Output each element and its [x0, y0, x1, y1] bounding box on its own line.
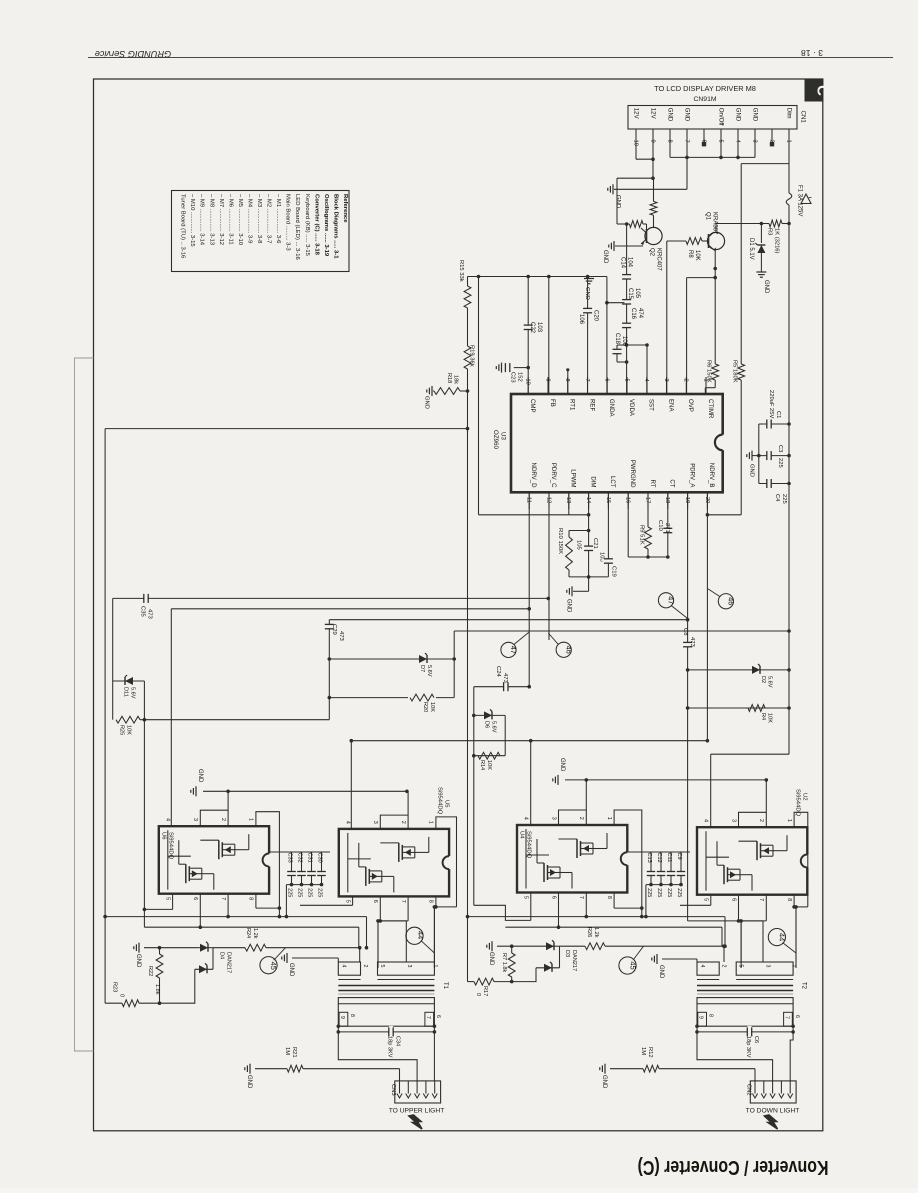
wire pin13/pin14 link: [479, 513, 591, 517]
wire U2 pins2-3 loop: [739, 780, 767, 827]
capacitor C18: [611, 343, 649, 394]
svg-text:473: 473: [147, 609, 153, 620]
test pad pin2: [770, 136, 774, 147]
capacitor C20: [582, 277, 594, 395]
wire T1 pin5 feed: [376, 919, 380, 962]
svg-text:Oscillograms ...... 3-19: Oscillograms ...... 3-19: [323, 194, 329, 257]
svg-text:2: 2: [578, 817, 584, 820]
svg-text:7: 7: [220, 897, 226, 900]
wire c35 left drop: [112, 598, 114, 719]
svg-text:225: 225: [666, 888, 672, 897]
svg-text:5.6V: 5.6V: [426, 665, 432, 677]
wire U4 pins2-3 loop: [559, 780, 587, 825]
svg-text:D6: D6: [484, 721, 490, 728]
svg-text:152: 152: [517, 372, 523, 382]
bus y754 DIM drive: [711, 753, 789, 755]
capacitor C10 271: [662, 492, 674, 559]
label C4 225: [774, 494, 787, 504]
label R8 10K: [687, 250, 700, 261]
svg-text:OVP: OVP: [687, 399, 694, 412]
capacitor C15: [605, 300, 632, 323]
svg-text:C12: C12: [656, 853, 662, 863]
net circle 44 right: [768, 929, 796, 954]
svg-text:R5 180K: R5 180K: [732, 360, 738, 383]
svg-text:9: 9: [544, 379, 550, 382]
rail y927 right: [505, 925, 722, 929]
wire Dim pin1 upper: [788, 136, 790, 194]
transformer T2: [695, 962, 806, 1034]
wire GND pin7 to GND: [614, 136, 687, 190]
wire pin16 PWRGND: [628, 492, 668, 557]
svg-text:10: 10: [525, 379, 531, 385]
resistor R26 1.2k: [585, 943, 724, 950]
label TO UPPER LIGHT: [389, 1108, 445, 1115]
label R21 1M: [284, 1047, 297, 1058]
svg-text:6: 6: [730, 898, 736, 901]
svg-text:4: 4: [699, 965, 705, 968]
svg-text:– M1 ............... 3-6: – M1 ............... 3-6: [275, 194, 281, 244]
svg-text:8: 8: [248, 897, 254, 900]
wire T1 pin3 stub: [378, 921, 406, 962]
svg-text:U5: U5: [444, 800, 450, 808]
svg-text:GND: GND: [584, 287, 590, 300]
svg-text:47: 47: [667, 596, 676, 604]
ground sym D1: [756, 272, 769, 294]
svg-text:GND: GND: [735, 108, 742, 122]
svg-text:1: 1: [786, 819, 792, 822]
svg-text:473: 473: [338, 631, 344, 642]
svg-text:104: 104: [627, 257, 633, 268]
title CN91M: [693, 96, 716, 103]
svg-text:– M2 ............... 3-7: – M2 ............... 3-7: [266, 194, 272, 243]
svg-text:7: 7: [584, 379, 590, 382]
wire 12V pin10: [636, 136, 655, 162]
svg-text:T1: T1: [442, 982, 448, 990]
svg-text:105: 105: [634, 288, 640, 299]
svg-text:2: 2: [721, 965, 727, 968]
label C23 152: [510, 372, 523, 383]
wire D2 rail: [686, 668, 791, 708]
wire FB pin9: [548, 277, 550, 395]
svg-text:1: 1: [606, 817, 612, 820]
diode D4 DAN217 upper: [197, 942, 245, 970]
ground sym bottom left: [134, 943, 141, 968]
svg-text:5: 5: [623, 379, 629, 382]
net circle 45 right: [619, 946, 644, 974]
svg-text:U4: U4: [519, 831, 525, 839]
ground sym R12: [600, 1064, 607, 1089]
svg-text:4: 4: [643, 379, 649, 382]
svg-text:3: 3: [192, 818, 198, 821]
svg-text:GND: GND: [684, 108, 691, 122]
diode D3 lower: [512, 962, 560, 982]
net circle 46 lower: [548, 633, 573, 657]
svg-text:11: 11: [526, 497, 532, 503]
svg-text:3: 3: [372, 821, 378, 824]
wire gate U2 pin4: [710, 754, 712, 827]
svg-text:C35: C35: [140, 606, 146, 618]
wire U4 pin1 out: [614, 810, 644, 918]
svg-text:7: 7: [784, 1016, 790, 1019]
svg-text:LPWM: LPWM: [570, 469, 577, 487]
wire T1 sec left out: [338, 1032, 417, 1081]
wire T2 sec left out: [697, 1032, 773, 1081]
svg-text:VDDA: VDDA: [628, 399, 635, 417]
resistor R22 1.8k: [156, 948, 163, 1005]
reference table: [172, 191, 350, 272]
ground sym T1 mid: [282, 953, 294, 977]
svg-text:REF: REF: [588, 399, 595, 411]
svg-text:GND: GND: [559, 758, 565, 772]
svg-text:R3: R3: [767, 228, 773, 235]
svg-text:225: 225: [297, 888, 303, 897]
svg-text:C15: C15: [627, 288, 633, 300]
svg-text:10K: 10K: [767, 713, 773, 723]
svg-text:5: 5: [379, 965, 385, 968]
svg-text:1.2k: 1.2k: [252, 928, 258, 939]
transistor Q2: [641, 227, 662, 245]
svg-text:– M7 .............. 3-12: – M7 .............. 3-12: [218, 194, 224, 245]
wire Q1 emitter: [713, 250, 717, 364]
svg-text:CN3: CN3: [390, 1084, 396, 1096]
svg-text:FB: FB: [549, 399, 556, 407]
wire br gnd: [497, 944, 546, 948]
IC U3 pin names: [529, 399, 715, 488]
svg-text:1K (3216): 1K (3216): [774, 228, 780, 254]
svg-text:– M5 .............. 3-10: – M5 .............. 3-10: [237, 194, 243, 246]
svg-text:U2: U2: [802, 793, 808, 801]
svg-text:D11: D11: [123, 687, 129, 697]
svg-text:R25: R25: [119, 725, 125, 735]
wire 12V pin9 rail: [617, 136, 655, 181]
resistor R9 51K: [645, 492, 652, 559]
svg-text:– M9 .............. 3-14: – M9 .............. 3-14: [199, 194, 205, 246]
resistor Q2 collector: [650, 178, 657, 227]
svg-text:C20: C20: [593, 310, 599, 322]
wire F1 down: [788, 205, 790, 754]
label F1 3A 125V: [797, 185, 803, 216]
svg-text:R14: R14: [479, 760, 485, 770]
bus y430 sense: [105, 427, 469, 431]
wire GND pin8: [670, 136, 755, 160]
svg-text:10K: 10K: [429, 702, 435, 712]
svg-text:R20: R20: [422, 702, 428, 712]
svg-text:6: 6: [550, 896, 556, 899]
label R9 51K: [639, 525, 645, 545]
svg-text:CT: CT: [669, 479, 676, 487]
label C10 271: [657, 520, 670, 533]
wire U6 pin7: [227, 894, 229, 917]
svg-text:TO DOWN LIGHT: TO DOWN LIGHT: [746, 1108, 800, 1115]
svg-text:473: 473: [502, 673, 508, 684]
label C15 105: [627, 288, 640, 300]
svg-text:R17: R17: [482, 986, 488, 996]
svg-text:1: 1: [428, 821, 434, 824]
svg-text:1.2k: 1.2k: [593, 927, 599, 938]
gnd rail right: [565, 778, 768, 782]
wire rail right corner: [723, 917, 727, 948]
diode D4 lower: [160, 963, 214, 1003]
label D1 5.1V: [748, 238, 754, 260]
svg-text:16: 16: [625, 497, 631, 503]
bus y620 PDRV-A2: [329, 619, 687, 621]
resistor R6: [705, 364, 718, 394]
bus y598 PDRV_C: [113, 597, 550, 601]
svg-text:103: 103: [536, 322, 542, 333]
section letter C box: [805, 79, 831, 101]
svg-text:1.8k: 1.8k: [154, 984, 160, 995]
svg-text:GND: GND: [288, 963, 294, 977]
capacitor C24 473: [474, 666, 531, 693]
wire OVP rail: [687, 278, 716, 394]
svg-text:ENA: ENA: [667, 399, 674, 412]
svg-text:1M: 1M: [640, 1047, 646, 1055]
wire pdrv_a down: [687, 708, 689, 921]
bus y609 NDRV_D: [171, 607, 531, 611]
wire sense left vertical: [103, 429, 107, 1004]
svg-text:C13: C13: [646, 853, 652, 863]
label R7 1.8k: [501, 953, 507, 972]
resistor R17 0: [468, 978, 512, 985]
svg-text:14: 14: [585, 497, 591, 503]
svg-text:R7 1.8k: R7 1.8k: [501, 953, 507, 972]
resistor R3: [769, 220, 791, 227]
label C22 103: [529, 322, 542, 334]
wire GND pin3: [754, 136, 756, 158]
svg-text:1: 1: [432, 965, 438, 968]
svg-text:D7: D7: [419, 665, 425, 672]
wire U4 pin5 source: [474, 893, 531, 921]
label R3 1K(3216): [767, 228, 780, 254]
capacitor C6 18p 3KV: [745, 1026, 759, 1058]
svg-text:8: 8: [606, 896, 612, 899]
svg-text:8: 8: [349, 1014, 355, 1017]
svg-text:0: 0: [475, 993, 481, 996]
svg-text:D2: D2: [760, 676, 766, 683]
svg-text:C3: C3: [777, 445, 783, 452]
wire U2 pin8 junction: [792, 895, 808, 968]
svg-text:– M6 .............. 3-11: – M6 .............. 3-11: [227, 194, 233, 245]
wire T2 pin1 feed: [795, 907, 797, 962]
svg-text:10K: 10K: [486, 760, 492, 770]
svg-text:271: 271: [664, 523, 670, 533]
svg-text:1: 1: [248, 818, 254, 821]
svg-text:6: 6: [435, 1015, 441, 1018]
svg-text:4: 4: [523, 817, 529, 820]
svg-text:CN91M: CN91M: [693, 96, 716, 103]
svg-text:R19 36k: R19 36k: [469, 345, 475, 367]
svg-text:R26: R26: [586, 927, 592, 937]
resistor R21 1M: [255, 1065, 400, 1081]
svg-text:TO UPPER LIGHT: TO UPPER LIGHT: [389, 1108, 445, 1115]
svg-text:3: 3: [550, 817, 556, 820]
svg-text:CN1: CN1: [800, 111, 807, 124]
svg-text:On/Off: On/Off: [718, 108, 725, 126]
svg-text:46: 46: [727, 597, 736, 605]
svg-text:12V: 12V: [650, 108, 657, 120]
label TO DOWN LIGHT: [746, 1108, 800, 1115]
connector CN2: [745, 1081, 796, 1103]
wire U4 pin8 jog: [614, 893, 644, 910]
svg-text:GND: GND: [424, 396, 430, 409]
svg-text:2: 2: [400, 821, 406, 824]
svg-text:2: 2: [362, 965, 368, 968]
wire T2 sec right out: [790, 1032, 793, 1081]
svg-text:47: 47: [509, 646, 518, 654]
label U3 OZ960: [492, 430, 507, 449]
svg-text:8: 8: [708, 1014, 714, 1017]
svg-text:R22: R22: [147, 966, 153, 976]
svg-text:C19: C19: [611, 566, 617, 577]
resistor R8: [686, 238, 709, 245]
svg-text:C8: C8: [682, 628, 688, 636]
wire gate U6 pin4: [171, 609, 172, 826]
diode D7 zener: [329, 653, 454, 677]
label C3 225: [777, 445, 783, 468]
svg-text:F1 3A 125V: F1 3A 125V: [797, 185, 803, 216]
capacitors C13 C12 C11 C9: [627, 852, 690, 918]
resistor R15: [464, 277, 471, 347]
svg-text:474: 474: [637, 308, 643, 319]
header text GRUNDIG Service: [95, 49, 172, 59]
net circle 46 upper: [707, 589, 735, 609]
svg-text:C23: C23: [510, 372, 516, 383]
svg-text:R8: R8: [687, 250, 693, 258]
svg-text:R9 51K: R9 51K: [639, 525, 645, 545]
capacitor C1 220uF 25V: [759, 418, 791, 484]
connector CN1: [628, 106, 807, 146]
svg-text:45: 45: [628, 961, 637, 969]
wire U6 pin5 source: [144, 894, 172, 910]
resistor R18: [433, 388, 460, 395]
capacitor C35 473: [140, 592, 153, 619]
svg-text:3: 3: [765, 965, 771, 968]
label R15 33k: [458, 260, 464, 282]
svg-text:8: 8: [564, 379, 570, 382]
svg-text:R23: R23: [112, 982, 118, 992]
label U6 Si9544DQ: [161, 832, 174, 860]
svg-text:GRUNDIG Service: GRUNDIG Service: [95, 49, 172, 59]
wire Q2 emitter gnd: [602, 241, 643, 264]
svg-text:DAN217: DAN217: [226, 952, 232, 973]
svg-text:5: 5: [738, 965, 744, 968]
label C19: [611, 566, 617, 577]
wire gnd to T2 pin4: [662, 959, 697, 962]
wire U5 pin5: [300, 896, 353, 905]
capacitor C34 18p 3KV: [386, 1026, 400, 1058]
svg-text:C32: C32: [297, 853, 303, 863]
svg-text:45: 45: [269, 962, 278, 970]
svg-text:OZ960: OZ960: [492, 430, 499, 449]
svg-text:C1: C1: [775, 411, 781, 418]
wire sense right vertical: [466, 429, 470, 982]
svg-text:GND: GND: [601, 1075, 607, 1089]
svg-text:3: 3: [730, 819, 736, 822]
resistor R10 150K: [566, 531, 589, 577]
svg-text:CN2: CN2: [745, 1084, 751, 1096]
ground sym CN1 GND: [608, 184, 621, 209]
diode D2 zener: [752, 664, 773, 688]
svg-text:R15 33k: R15 33k: [458, 260, 464, 282]
svg-text:DIM: DIM: [589, 476, 596, 487]
resistor R5: [738, 364, 745, 515]
svg-text:LED Board (LED) ... 3-16: LED Board (LED) ... 3-16: [294, 194, 300, 261]
svg-text:2: 2: [683, 379, 689, 382]
svg-text:R4: R4: [760, 713, 766, 720]
svg-text:Dim: Dim: [786, 108, 793, 119]
svg-text:1M: 1M: [284, 1047, 290, 1055]
svg-text:R10 150K: R10 150K: [557, 528, 563, 554]
capacitor C14: [621, 224, 633, 299]
svg-text:9: 9: [339, 1016, 345, 1019]
wire T2 pin2 feed: [722, 944, 726, 962]
wire U2 pin1 out: [794, 812, 808, 907]
ground sym U4 group: [553, 758, 565, 785]
resistor Q2 base: [629, 221, 646, 229]
rail y916 right: [468, 915, 726, 919]
wire gate U4 pin4: [530, 741, 532, 825]
svg-text:GND: GND: [566, 599, 572, 613]
wire U2 pin5: [680, 895, 711, 906]
svg-text:C14: C14: [620, 257, 626, 269]
svg-text:220uF 25V: 220uF 25V: [768, 390, 774, 418]
capacitor C3 225: [757, 450, 791, 462]
net circle 47 lower: [501, 632, 529, 658]
wire pin20 NDRV_B: [706, 492, 742, 740]
svg-text:CMP: CMP: [529, 399, 536, 413]
capacitor C21: [583, 546, 595, 550]
wire GND pin5: [720, 136, 722, 158]
wire rail927 right corner: [721, 927, 723, 946]
svg-text:18p 3KV: 18p 3KV: [386, 1036, 392, 1058]
svg-text:CTIMR: CTIMR: [707, 399, 714, 419]
svg-text:3: 3: [663, 379, 669, 382]
svg-text:225: 225: [307, 888, 313, 897]
svg-text:Si9544DQ: Si9544DQ: [168, 832, 174, 860]
svg-text:225: 225: [287, 888, 293, 897]
svg-text:KRC407: KRC407: [656, 248, 662, 271]
svg-text:C33: C33: [287, 853, 293, 863]
svg-text:4: 4: [340, 965, 346, 968]
wire R18 branch: [460, 389, 469, 393]
MOSFET IC U2 Si9544DQ: [697, 819, 809, 901]
svg-text:473: 473: [689, 637, 695, 648]
diode D11 zener: [113, 675, 145, 699]
wire U5 pins2-3 loop: [380, 791, 408, 829]
wire U4 pin6: [558, 893, 560, 928]
svg-text:7: 7: [400, 900, 406, 903]
svg-text:4: 4: [344, 821, 350, 824]
scan artifact left margin: [75, 358, 94, 1051]
IC U3 pin stubs and numbers: [525, 377, 710, 509]
svg-text:5.6V: 5.6V: [130, 687, 136, 699]
svg-text:3 · 18: 3 · 18: [801, 48, 823, 58]
svg-text:C29: C29: [331, 624, 337, 635]
svg-text:GND: GND: [246, 1075, 252, 1089]
label R18 18k: [446, 373, 459, 384]
svg-text:Si9544DQ: Si9544DQ: [437, 787, 443, 815]
svg-text:R21: R21: [291, 1047, 297, 1058]
wire pin11 NDRV_D: [528, 492, 530, 686]
svg-text:2: 2: [220, 818, 226, 821]
svg-text:18p 3KV: 18p 3KV: [745, 1036, 751, 1058]
svg-text:GNDA: GNDA: [608, 399, 615, 418]
net circle 47 upper: [658, 593, 687, 619]
svg-text:7: 7: [758, 898, 764, 901]
svg-text:106: 106: [621, 336, 627, 347]
page number 3-18: [801, 48, 823, 58]
svg-text:5.6V: 5.6V: [491, 721, 497, 733]
